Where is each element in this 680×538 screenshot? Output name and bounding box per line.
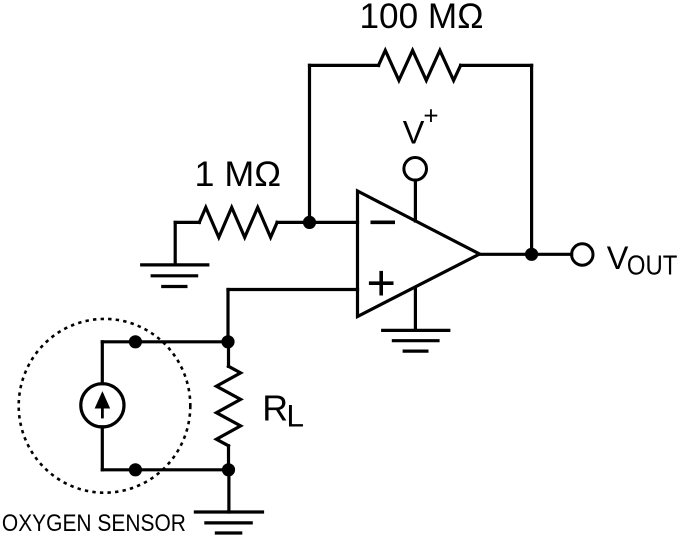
ground GND1 left bbox=[142, 265, 208, 287]
resistor R2 100 MΩ zigzag bbox=[379, 50, 461, 80]
wire R1 left lead bbox=[175, 221, 199, 224]
wire sensor left lower vertical bbox=[101, 427, 104, 470]
node sensor bottom terminal dot bbox=[129, 463, 142, 476]
op-amp U1 triangle bbox=[358, 191, 480, 317]
wire ground GND1 vertical bbox=[174, 222, 177, 265]
svg-text:L: L bbox=[286, 397, 304, 433]
terminal V+ circle bbox=[404, 158, 427, 181]
wire feedback left vertical bbox=[308, 65, 311, 222]
svg-text:V: V bbox=[403, 115, 425, 151]
node RL top junction dot bbox=[221, 335, 234, 348]
wire inverting input bbox=[277, 221, 357, 224]
svg-text:100 MΩ: 100 MΩ bbox=[360, 0, 484, 36]
wire non-inverting input vertical bbox=[226, 290, 229, 342]
wire V+ to op-amp top edge bbox=[414, 180, 417, 221]
wire op-amp to ground GND2 bbox=[414, 288, 417, 331]
wire op-amp output bbox=[480, 253, 572, 256]
wire feedback top right horizontal bbox=[461, 64, 532, 67]
node RL bottom junction dot bbox=[222, 463, 235, 476]
wire RL bottom lead bbox=[227, 446, 230, 470]
node inverting input junction dot bbox=[303, 216, 316, 229]
svg-text:OXYGEN SENSOR: OXYGEN SENSOR bbox=[2, 510, 186, 537]
resistor RL zigzag bbox=[216, 366, 240, 446]
svg-text:V: V bbox=[607, 240, 629, 276]
resistor R1 1 MΩ zigzag bbox=[199, 207, 277, 237]
op-amp U1 plus sign bbox=[371, 273, 392, 294]
wire sensor top horizontal bbox=[102, 340, 228, 343]
current source I1 circle bbox=[81, 384, 124, 427]
wire RL to ground GND3 bbox=[227, 470, 230, 512]
svg-text:R: R bbox=[262, 388, 288, 428]
sensor boundary dotted circle bbox=[19, 319, 191, 493]
wire sensor left upper vertical bbox=[101, 342, 104, 384]
svg-text:OUT: OUT bbox=[627, 250, 678, 281]
node output junction dot bbox=[525, 248, 538, 261]
terminal VOUT open circle bbox=[572, 244, 593, 265]
wire non-inverting input horizontal bbox=[228, 288, 358, 291]
wire RL top lead bbox=[227, 342, 230, 367]
ground GND3 below RL bbox=[195, 512, 262, 533]
wire feedback top left horizontal bbox=[310, 64, 379, 67]
current source I1 arrow bbox=[95, 392, 109, 418]
op-amp U1 minus sign bbox=[372, 221, 393, 225]
ground GND2 below op-amp bbox=[383, 330, 449, 351]
node sensor top terminal dot bbox=[129, 335, 142, 348]
svg-text:+: + bbox=[423, 101, 438, 131]
svg-text:1 MΩ: 1 MΩ bbox=[195, 154, 282, 194]
wire sensor bottom horizontal bbox=[102, 468, 228, 471]
wire feedback right vertical bbox=[530, 65, 533, 254]
